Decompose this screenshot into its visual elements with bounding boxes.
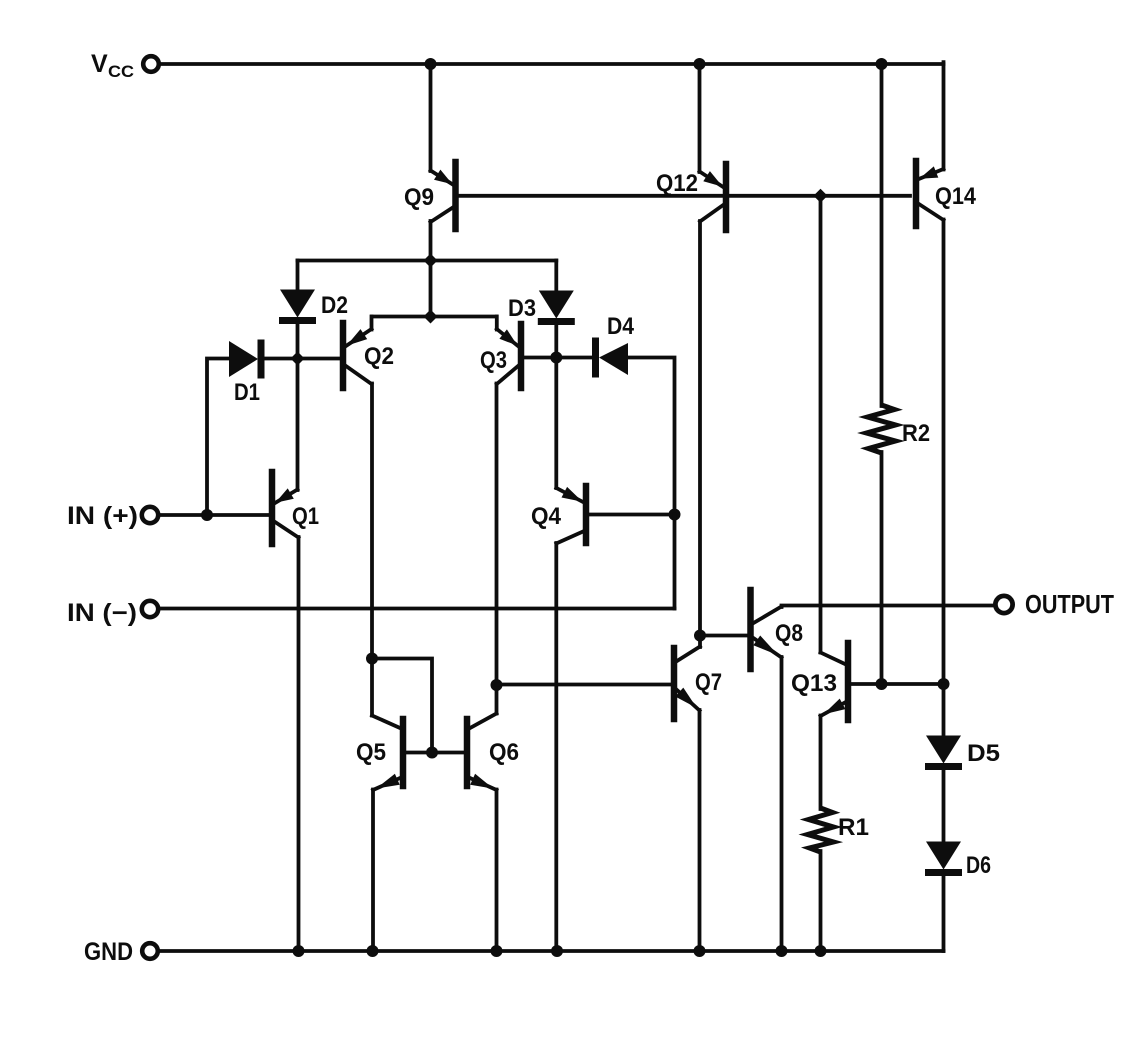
- wire D2 anode lead: [296, 261, 300, 291]
- svg-text:D1: D1: [234, 379, 260, 406]
- wire Q2 base lead: [298, 357, 341, 361]
- svg-text:Q1: Q1: [292, 503, 319, 530]
- wire Q12 collector riser: [698, 221, 702, 636]
- wire Q3 base lead: [524, 356, 556, 360]
- wire Q8 base lead: [700, 634, 747, 638]
- node R2/Q13 base junction: [876, 678, 888, 690]
- wire IN- riser: [673, 515, 677, 609]
- VCC terminal: [91, 50, 159, 81]
- svg-text:V: V: [91, 50, 108, 78]
- node GND-Q1: [293, 945, 305, 957]
- svg-text:Q8: Q8: [775, 620, 803, 647]
- diode D6: [925, 842, 991, 880]
- GND terminal: [84, 938, 158, 966]
- wire Q4 collector riser: [554, 543, 558, 951]
- node Q4 base / IN- junction: [669, 509, 681, 521]
- svg-text:D4: D4: [607, 313, 635, 340]
- IN (-) terminal: [67, 599, 158, 627]
- node Q3/Q6 collector to Q7 base junction: [491, 679, 503, 691]
- transistor Q12: [656, 164, 726, 230]
- wire Q1 collector riser: [297, 537, 301, 951]
- diode D5: [925, 736, 1000, 768]
- wire D4 cathode lead: [556, 356, 592, 360]
- resistor R1: [808, 808, 870, 852]
- wire D3 anode lead: [554, 261, 558, 292]
- wire Q5 collector riser: [370, 659, 374, 716]
- transistor Q3: [480, 324, 521, 388]
- wire Q13 emitter / R1 top lead: [819, 716, 823, 810]
- transistor Q1: [272, 472, 319, 544]
- node D3/Q3/D4/Q4 junction: [550, 352, 562, 364]
- transistor Q9: [404, 162, 456, 229]
- wire D1 cathode lead: [264, 357, 298, 361]
- wire R2 top lead: [880, 62, 884, 406]
- wire Q2 emitter corner: [370, 317, 374, 330]
- wire Q14 collector riser: [942, 220, 946, 685]
- svg-text:Q2: Q2: [364, 343, 394, 370]
- transistor Q8: [751, 590, 804, 669]
- wire IN- line: [159, 607, 675, 611]
- wire D5 anode lead: [942, 684, 946, 736]
- node VCC-Q9: [425, 58, 437, 70]
- node Q9 collector junction: [424, 254, 438, 268]
- wire Q13 base line: [851, 682, 944, 686]
- wire Q7 collector lead: [698, 636, 702, 648]
- wire Q4 emitter riser: [554, 358, 558, 489]
- IN (+) terminal: [67, 502, 158, 530]
- wire D4 anode lead: [628, 358, 675, 515]
- wire current-mirror top rail: [298, 259, 557, 263]
- node VCC-Q12: [694, 58, 706, 70]
- wire R1 bottom lead: [819, 851, 823, 951]
- diode D3: [508, 291, 575, 323]
- wire D1 anode lead: [207, 359, 229, 516]
- svg-text:OUTPUT: OUTPUT: [1025, 589, 1114, 619]
- wire Q3 emitter corner: [495, 317, 499, 330]
- wire Q12 emitter riser: [698, 62, 702, 172]
- node GND-Q4: [551, 945, 563, 957]
- wire VCC rail: [160, 62, 944, 66]
- wire Q8 emitter riser: [780, 657, 784, 951]
- svg-text:Q5: Q5: [356, 739, 386, 766]
- wire D5-D6 link: [942, 769, 946, 842]
- svg-text:D3: D3: [508, 295, 536, 322]
- transistor Q4: [531, 486, 586, 544]
- wire Q1 emitter riser: [296, 359, 300, 491]
- wire Q7 base line: [497, 683, 672, 687]
- wire GND rail: [159, 949, 944, 953]
- node GND-R1: [815, 945, 827, 957]
- diode D2: [279, 290, 348, 321]
- svg-text:IN (−): IN (−): [67, 599, 137, 627]
- wire Q13 collector riser: [819, 196, 823, 653]
- svg-text:R2: R2: [902, 420, 930, 447]
- node GND-Q8: [776, 945, 788, 957]
- wire D3 cathode lead: [554, 324, 558, 358]
- wire Q2/Q3 emitter bus: [372, 315, 497, 319]
- wire Q9 collector riser: [429, 221, 433, 261]
- node IN+/D1 junction: [201, 509, 213, 521]
- transistor Q13: [791, 643, 848, 720]
- transistor Q5: [356, 716, 403, 791]
- svg-text:GND: GND: [84, 938, 133, 966]
- node GND-Q7: [694, 945, 706, 957]
- svg-text:IN (+): IN (+): [67, 502, 138, 530]
- node Q12/Q7/Q8 junction: [694, 630, 706, 642]
- wire Q5-Q6 base line: [406, 751, 464, 755]
- wire Q4 base lead: [589, 513, 675, 517]
- diode D4: [596, 313, 635, 378]
- node D1/D2/Q2-base/Q1-emitter junction: [291, 352, 305, 366]
- svg-text:D2: D2: [321, 292, 348, 319]
- node Q12 base / Q13 collector tap: [814, 189, 828, 203]
- svg-text:Q14: Q14: [935, 183, 977, 210]
- wire Q5 emitter riser: [371, 790, 375, 952]
- wire Q2-collector to Q5-base jog: [372, 659, 432, 753]
- wire IN+ lead: [159, 513, 269, 517]
- node GND-Q6: [491, 945, 503, 957]
- svg-text:Q9: Q9: [404, 184, 434, 211]
- wire Q9 emitter riser: [429, 62, 433, 171]
- node emitter bus junction: [424, 310, 438, 324]
- wire OUTPUT line: [782, 606, 996, 608]
- node GND-Q5: [367, 945, 379, 957]
- wire D6 cathode lead: [942, 875, 946, 951]
- wire base bus Q9-Q12-Q14: [458, 194, 910, 198]
- wire R2 bottom lead: [880, 452, 884, 684]
- svg-text:Q12: Q12: [656, 170, 698, 197]
- diode D1: [229, 340, 261, 407]
- wire node-to-emitter-bus segment: [429, 261, 433, 318]
- node VCC-R2: [876, 58, 888, 70]
- svg-text:R1: R1: [838, 814, 869, 841]
- transistor Q2: [343, 323, 394, 388]
- svg-text:D5: D5: [967, 740, 1000, 767]
- wire Q2 collector riser: [370, 384, 374, 659]
- resistor R2: [867, 405, 931, 453]
- svg-text:D6: D6: [966, 852, 991, 879]
- svg-text:Q6: Q6: [489, 739, 519, 766]
- transistor Q14: [916, 161, 977, 226]
- node Q5 collector-base tie: [366, 653, 378, 665]
- wire Q7 emitter riser: [698, 710, 702, 951]
- svg-text:Q4: Q4: [531, 503, 562, 530]
- svg-text:Q3: Q3: [480, 347, 507, 374]
- wire Q14 emitter riser: [942, 62, 946, 169]
- wire D2 cathode lead: [296, 323, 300, 359]
- transistor Q7: [674, 647, 722, 720]
- svg-text:Q13: Q13: [791, 670, 837, 697]
- transistor Q6: [467, 714, 519, 791]
- svg-text:Q7: Q7: [695, 669, 722, 696]
- node Q14 collector / D5 junction: [938, 678, 950, 690]
- node Q5-Q6 base junction: [426, 747, 438, 759]
- wire Q3-Q6 collector riser: [495, 384, 499, 714]
- svg-text:CC: CC: [108, 62, 134, 81]
- OUTPUT terminal: [995, 589, 1114, 619]
- wire Q6 emitter riser: [495, 790, 499, 952]
